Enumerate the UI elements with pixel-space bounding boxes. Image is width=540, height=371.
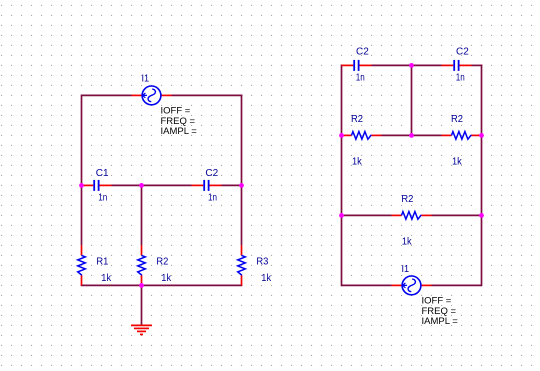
wire: left circuit right rail — [241, 95, 243, 246]
pin: C2b left pin — [442, 64, 454, 66]
resistor R3 — [238, 245, 272, 285]
pin: R2 bottom pin — [141, 275, 143, 285]
resistor R2 (right circuit, mid row right) — [442, 114, 482, 168]
pin: R2c right pin — [422, 214, 432, 216]
junction: left rail / R2a — [339, 133, 344, 138]
pin: R2b right pin — [472, 134, 482, 136]
pin: R2b left pin — [442, 134, 452, 136]
I1 sine squiggle — [148, 89, 155, 101]
pin: R2a right pin — [372, 134, 382, 136]
ground symbol — [131, 325, 152, 334]
junction: C1 / C2 / middle wire — [139, 183, 144, 188]
R3 zigzag — [238, 255, 246, 275]
wire: mid row segment middle node to R2b — [412, 134, 442, 136]
wire: bottom rail right segment — [432, 284, 482, 286]
pin: C1 left pin — [82, 184, 94, 186]
svg-text:1n: 1n — [98, 193, 107, 204]
pin: R2 top pin — [141, 245, 143, 255]
svg-text:1k: 1k — [161, 273, 172, 284]
pin: C2a left pin — [342, 64, 354, 66]
svg-text:C2: C2 — [205, 168, 218, 179]
svg-text:R2: R2 — [401, 194, 413, 205]
C2 right plate — [208, 180, 210, 191]
R2 zigzag — [138, 255, 146, 275]
svg-text:1n: 1n — [208, 193, 217, 204]
wire: cap row segment middle node to C2 — [142, 184, 192, 186]
svg-text:1k: 1k — [402, 236, 413, 247]
svg-text:1k: 1k — [101, 273, 112, 284]
I1b circle body — [402, 276, 421, 295]
I1b sine squiggle — [408, 279, 415, 291]
junction: right rail / R2c row — [479, 213, 484, 218]
svg-text:R2: R2 — [156, 257, 168, 268]
pin: C2 left pin — [192, 184, 204, 186]
I1 circle body — [142, 86, 161, 105]
junction: middle vertical / mid row — [409, 133, 414, 138]
svg-text:R2: R2 — [451, 114, 463, 125]
C2a left plate — [353, 60, 355, 71]
junction: bottom rail / ground — [139, 283, 144, 288]
wire: bottom rail left segment — [342, 284, 392, 286]
R2b zigzag — [452, 132, 472, 140]
pin: R3 top pin — [241, 245, 243, 255]
pin: I1 left pin — [132, 94, 143, 96]
current source I1 (left circuit) — [132, 74, 198, 137]
junction: top rail / middle vertical — [409, 63, 414, 68]
wire: right circuit middle vertical — [411, 65, 413, 135]
svg-text:I1: I1 — [402, 264, 410, 275]
I1 current direction arrow — [143, 93, 148, 98]
pin: C2b right pin — [459, 64, 471, 66]
svg-text:R3: R3 — [256, 257, 268, 268]
wire: left circuit top rail right segment — [172, 94, 243, 96]
pin: C2 right pin — [209, 184, 221, 186]
junction: left rail / R2c row — [339, 213, 344, 218]
current source I1 (right circuit) — [392, 264, 459, 327]
pin: C1 right pin — [99, 184, 111, 186]
C2b right plate — [458, 60, 460, 71]
svg-text:C2: C2 — [456, 47, 469, 58]
wire: R2c row right segment — [432, 214, 482, 216]
pin: C2a right pin — [359, 64, 371, 66]
I1b current direction arrow — [403, 283, 408, 288]
svg-text:C1: C1 — [96, 168, 109, 179]
wire: left circuit top rail left segment — [82, 94, 132, 96]
wire: right circuit right rail — [481, 65, 483, 287]
C2b left plate — [453, 60, 455, 71]
capacitor C2 (right circuit, left) — [342, 47, 372, 84]
resistor R1 — [78, 245, 112, 285]
wire: ground stub — [141, 285, 143, 325]
wire: right circuit top rail right segment — [472, 64, 483, 66]
wire: R2c row left segment — [342, 214, 392, 216]
wire: right circuit top rail middle segment — [372, 64, 442, 66]
wire: cap row segment C1 to middle node — [112, 184, 142, 186]
wire: cap row segment C2 to right rail — [222, 184, 242, 186]
junction: right rail / R2b — [479, 133, 484, 138]
wire: mid row segment R2a to middle node — [382, 134, 412, 136]
C1 right plate — [98, 180, 100, 191]
svg-text:C2: C2 — [356, 47, 369, 58]
C1 left plate — [93, 180, 95, 191]
svg-text:1k: 1k — [452, 157, 463, 168]
pin: I1b right pin — [421, 284, 432, 286]
capacitor C1 — [82, 168, 112, 204]
capacitor C2 (left circuit) — [192, 168, 222, 204]
svg-text:IAMPL =: IAMPL = — [422, 316, 459, 327]
pin: R2c left pin — [392, 214, 402, 216]
pin: I1b left pin — [392, 284, 403, 286]
pin: R3 bottom pin — [241, 275, 243, 285]
svg-text:R2: R2 — [351, 114, 363, 125]
R2a zigzag — [352, 132, 372, 140]
C2 left plate — [203, 180, 205, 191]
svg-text:IAMPL =: IAMPL = — [161, 126, 198, 137]
wire: left circuit left rail — [81, 95, 83, 246]
wire: middle vertical from cap junction down to R2 — [141, 185, 143, 245]
resistor R2 (right circuit, lower row) — [392, 194, 432, 248]
capacitor C2 (right circuit, right) — [442, 47, 472, 84]
resistor R2 (left circuit middle) — [138, 245, 172, 285]
wire: right circuit left rail — [341, 65, 343, 287]
junction: left rail / C1 — [79, 183, 84, 188]
svg-text:1n: 1n — [456, 72, 465, 83]
svg-text:1n: 1n — [356, 72, 365, 83]
pin: R1 top pin — [81, 245, 83, 255]
svg-text:R1: R1 — [96, 257, 108, 268]
svg-text:1k: 1k — [261, 273, 272, 284]
svg-text:1k: 1k — [352, 157, 363, 168]
R1 zigzag — [78, 255, 86, 275]
pin: I1 right pin — [161, 94, 172, 96]
pin: R2a left pin — [342, 134, 352, 136]
wire: left circuit bottom rail — [81, 284, 243, 286]
svg-text:I1: I1 — [142, 74, 150, 85]
pin: R1 bottom pin — [81, 275, 83, 285]
C2a right plate — [358, 60, 360, 71]
junction: C2 / right rail — [239, 183, 244, 188]
R2c zigzag — [402, 212, 422, 220]
resistor R2 (right circuit, mid row left) — [342, 114, 382, 168]
